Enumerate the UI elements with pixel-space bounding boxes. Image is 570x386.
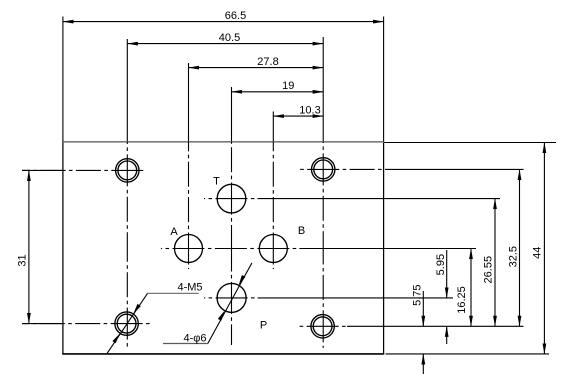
centre line horizontal top-right hole bbox=[307, 168, 339, 170]
centre line vertical left column bbox=[126, 154, 128, 186]
extension line top-left hole left bbox=[22, 169, 63, 171]
svg-text:A: A bbox=[170, 226, 178, 238]
port hole T bbox=[217, 184, 246, 213]
plate top edge (gray) bbox=[62, 141, 384, 143]
extension line x=188.5 up bbox=[188, 63, 190, 142]
mounting hole M5 bottom-left bbox=[115, 312, 138, 335]
centre line horizontal P hole bbox=[216, 297, 248, 299]
mounting plate right edge bbox=[383, 142, 385, 355]
svg-text:31: 31 bbox=[16, 254, 28, 266]
svg-text:4-φ6: 4-φ6 bbox=[183, 333, 206, 345]
centre line vertical B column bbox=[272, 233, 274, 265]
dimension 40.5 bbox=[127, 43, 323, 45]
svg-text:5.75: 5.75 bbox=[412, 284, 424, 305]
dimension 32.5 bbox=[519, 169, 521, 326]
dimension 27.8 bbox=[189, 67, 324, 69]
centre line horizontal bottom-left hole bbox=[111, 323, 143, 325]
mounting hole M5 top-left bbox=[116, 159, 139, 182]
leader 4-M5 underline bbox=[148, 292, 199, 294]
leader 4-phi6 underline bbox=[163, 343, 208, 345]
mounting plate bottom edge bbox=[62, 353, 384, 355]
extension line A-B centre right bbox=[299, 248, 476, 250]
mounting hole M5 top-right bbox=[312, 158, 335, 181]
extension line bottom-row centre right bbox=[347, 325, 524, 327]
mounting hole M5 bottom-right bbox=[311, 315, 334, 338]
dimension 66.5 bbox=[63, 21, 384, 23]
dimension 26.55 bbox=[494, 199, 496, 327]
svg-text:T: T bbox=[213, 176, 220, 188]
dimension 44 bbox=[543, 143, 545, 354]
svg-text:5.95: 5.95 bbox=[435, 254, 447, 275]
svg-text:4-M5: 4-M5 bbox=[177, 281, 202, 293]
svg-text:19: 19 bbox=[282, 80, 294, 92]
extension line right edge up bbox=[383, 17, 385, 142]
svg-text:B: B bbox=[298, 225, 305, 237]
svg-text:66.5: 66.5 bbox=[225, 10, 246, 22]
extension line left edge up bbox=[62, 17, 64, 142]
leader 4-M5 diagonal through bottom-left hole bbox=[107, 293, 147, 353]
centre line horizontal bottom-right hole bbox=[307, 325, 339, 327]
port hole A bbox=[175, 235, 203, 263]
extension line top-row centre right bbox=[392, 168, 524, 170]
extension line x=273.3 up bbox=[272, 112, 274, 142]
extension line x=127 up bbox=[126, 39, 128, 142]
svg-text:44: 44 bbox=[532, 247, 544, 259]
leader 4-phi6 diagonal through port hole P bbox=[208, 263, 252, 344]
extension line x=323 up bbox=[322, 37, 324, 142]
extension line top edge right bbox=[384, 142, 556, 144]
dimension 5.95 bbox=[446, 250, 448, 298]
extension line T centre right bbox=[258, 198, 501, 200]
centre line vertical right column bbox=[322, 153, 324, 185]
dimension 10.3 bbox=[273, 115, 323, 117]
svg-text:16.25: 16.25 bbox=[456, 286, 468, 314]
mounting plate left edge bbox=[62, 142, 64, 355]
port hole P (centre) bbox=[217, 283, 246, 312]
extension line bottom-left hole left bbox=[22, 323, 63, 325]
dimension 19 bbox=[232, 91, 324, 93]
centre line vertical A column bbox=[188, 233, 190, 265]
dimension 5.75 bbox=[422, 291, 424, 326]
extension line P centre right bbox=[258, 297, 453, 299]
centre line horizontal T hole bbox=[216, 198, 248, 200]
port hole B bbox=[259, 235, 287, 263]
dimension 31 (left) bbox=[28, 170, 30, 323]
svg-text:10.3: 10.3 bbox=[299, 104, 320, 116]
svg-text:27.8: 27.8 bbox=[257, 56, 278, 68]
svg-text:P: P bbox=[260, 319, 267, 331]
svg-text:40.5: 40.5 bbox=[219, 32, 240, 44]
dimension 16.25 bbox=[470, 249, 472, 327]
centre line vertical T/P column bbox=[231, 183, 233, 215]
svg-text:32.5: 32.5 bbox=[508, 246, 520, 267]
centre line horizontal A-B holes bbox=[173, 248, 205, 250]
svg-text:26.55: 26.55 bbox=[483, 256, 495, 284]
extension line bottom edge right bbox=[386, 353, 550, 355]
extension line x=231.5 up bbox=[231, 87, 233, 142]
centre line horizontal top-left hole bbox=[111, 169, 143, 171]
